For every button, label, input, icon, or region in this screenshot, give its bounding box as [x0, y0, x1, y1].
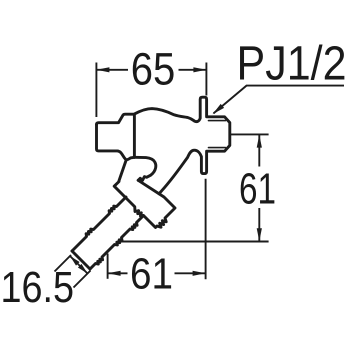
- svg-text:61: 61: [239, 164, 276, 213]
- svg-text:16.5: 16.5: [1, 264, 75, 312]
- svg-text:65: 65: [131, 44, 176, 95]
- svg-text:61: 61: [130, 251, 173, 299]
- svg-text:PJ1/2: PJ1/2: [237, 38, 347, 91]
